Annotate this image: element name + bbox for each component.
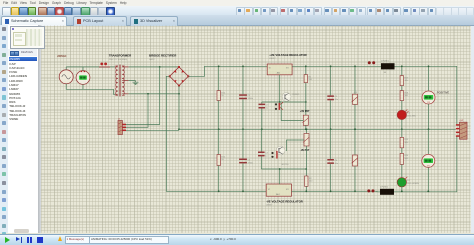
ground — [129, 81, 139, 85]
svg-text:-VE VOLTAGE REGULATOR: -VE VOLTAGE REGULATOR — [266, 199, 303, 203]
node C5 rail tap — [330, 65, 332, 67]
wire R20-D2 — [401, 164, 403, 177]
svg-text:R20: R20 — [405, 155, 410, 157]
resistor R17 — [400, 76, 409, 86]
menu bar — [0, 0, 474, 6]
svg-text:MJ2955: MJ2955 — [282, 164, 290, 166]
regulator U1 LM317 — [267, 64, 292, 75]
voltmeter POSITIVE — [422, 91, 435, 104]
node C1 0V tap — [242, 128, 244, 130]
connector J1 — [118, 119, 126, 135]
node C5 0V tap — [330, 128, 332, 130]
svg-text:-VE POT: -VE POT — [300, 150, 310, 152]
wire C6 bottom — [330, 164, 332, 191]
node D2 -V tap — [401, 190, 403, 192]
svg-text:R19: R19 — [405, 139, 410, 141]
sidebar / object selector — [8, 25, 38, 233]
svg-text:LED-GREEN: LED-GREEN — [407, 183, 419, 185]
svg-text:GBPC: GBPC — [149, 59, 155, 61]
LED D1 red — [397, 109, 417, 119]
wire pot- wiper to Q2 — [287, 140, 305, 151]
wire R2 bottom — [305, 186, 307, 191]
fuse FUSE2 — [367, 186, 394, 195]
wire +reg adj down — [279, 75, 281, 102]
wire C1 bottom — [242, 99, 244, 129]
node D1 0V tap — [401, 128, 403, 130]
svg-text:TRANSFORMER: TRANSFORMER — [109, 54, 132, 58]
wire R17 top — [401, 66, 403, 75]
wire R17-R18 — [401, 86, 403, 91]
wire R14 top — [218, 129, 220, 154]
node RV1 0V tap — [354, 128, 356, 130]
wire VM- bottom — [427, 168, 429, 192]
transistor Q2 body marks — [271, 151, 289, 166]
wire +rail after fuse — [395, 66, 460, 125]
wire 0V rail main — [179, 128, 456, 130]
wire C2 bottom — [242, 163, 244, 191]
toolbar — [0, 6, 474, 16]
node R10 0V tap — [218, 128, 220, 130]
transistor Q2 MJ2955 — [276, 146, 285, 155]
node VM- -V tap — [427, 190, 429, 192]
node VM+ rail tap — [428, 65, 430, 67]
node R1 rail tap — [305, 65, 307, 67]
status bar — [0, 234, 474, 245]
wire RV2 bottom — [354, 166, 356, 191]
svg-text:LED-RED: LED-RED — [407, 115, 416, 117]
svg-text:+VE POT: +VE POT — [300, 111, 310, 113]
wire voltmeter bottom stub — [82, 84, 84, 89]
svg-text:LM317: LM317 — [269, 58, 276, 60]
svg-text:10k: 10k — [405, 80, 408, 82]
svg-text:ADJ: ADJ — [277, 71, 280, 74]
node C2 -V tap — [242, 190, 244, 192]
wire R19 top — [401, 129, 403, 137]
svg-text:3300u: 3300u — [248, 98, 254, 100]
wire R10 bottom — [218, 101, 220, 130]
wire source top stub — [65, 67, 67, 70]
svg-text:POSITIVE: POSITIVE — [437, 91, 450, 95]
node R10 rail tap — [218, 65, 220, 67]
wire bridge+ to +rail — [188, 66, 267, 76]
fuse FUSE1 — [368, 61, 395, 74]
wire R14 bottom — [218, 166, 220, 192]
svg-text:10u: 10u — [335, 99, 338, 101]
node R2 -V tap — [305, 190, 307, 192]
node RV2 0V tap — [354, 128, 356, 130]
node x148 junction — [147, 93, 149, 95]
wire C3 top stub — [261, 102, 263, 104]
fuse F3 — [99, 63, 110, 67]
resistor R10 — [217, 91, 226, 101]
wire RV1 bottom — [354, 104, 356, 129]
wire pot+ bottom — [305, 125, 307, 129]
node RV1 rail tap — [354, 65, 356, 67]
node pot+ 0V tap — [305, 128, 307, 130]
wire C1 top — [242, 66, 244, 94]
wire VM- top — [427, 129, 429, 154]
wire C4 bottom stub — [260, 156, 262, 169]
node adj- junction — [279, 168, 281, 170]
wire source bottom — [66, 84, 115, 95]
capacitor C3 — [259, 104, 270, 110]
node R14 -V tap — [218, 190, 220, 192]
transformer TR1 — [115, 65, 129, 97]
svg-text:LM337: LM337 — [266, 205, 273, 207]
left tool column — [0, 25, 8, 233]
wire VM+ top — [428, 66, 430, 91]
wire vert sec-top to J1 pin1 — [126, 67, 160, 125]
wire C6 top — [330, 129, 332, 159]
node adj-R1 junction — [305, 101, 307, 103]
node adj-R2 junction — [305, 168, 307, 170]
wire C3 bottom — [261, 109, 263, 130]
capacitor C1 — [239, 94, 253, 100]
node VM+ 0V tap — [428, 128, 430, 130]
canvas — [41, 26, 471, 233]
AC source V1 — [59, 70, 73, 84]
node bridge bottom 0V junction — [178, 128, 180, 130]
resistor R1 — [304, 75, 313, 83]
potentiometer +VE POT — [303, 115, 309, 125]
node C3 0V tap — [261, 128, 263, 130]
wire D1 bottom — [401, 120, 403, 130]
resistor R18 — [400, 91, 409, 101]
wire secondary top to bridge — [129, 66, 179, 68]
regulator U2 LM337 — [266, 184, 291, 196]
capacitor C5 — [327, 95, 338, 101]
tab bar — [0, 15, 474, 26]
svg-text:ADJ: ADJ — [276, 193, 279, 196]
wire RV1 top — [354, 66, 356, 94]
wire -reg adj up — [279, 169, 281, 184]
svg-text:+VE VOLTAGE REGULATOR: +VE VOLTAGE REGULATOR — [269, 53, 306, 57]
potentiometer -VE POT — [303, 134, 309, 147]
wire R1 top — [305, 66, 307, 74]
wire VM+ bottom — [428, 104, 430, 129]
wire C2 top — [242, 129, 244, 158]
svg-text:220VAC: 220VAC — [57, 55, 66, 58]
svg-text:10u: 10u — [335, 163, 338, 165]
wire +rail reg out — [292, 65, 381, 67]
LED D2 green — [397, 177, 419, 187]
svg-text:1u: 1u — [265, 155, 267, 157]
svg-text:2N3055: 2N3055 — [292, 94, 300, 96]
wire 0V rail start — [126, 129, 179, 131]
wire R19-R20 — [401, 148, 403, 154]
wire adj node horiz neg — [261, 168, 306, 170]
wire R18-D1 — [401, 101, 403, 111]
svg-text:220V TO 15V(RMS): 220V TO 15V(RMS) — [109, 59, 128, 61]
wire -rail after fuse — [394, 136, 460, 192]
wire secondary bottom wire — [129, 93, 179, 95]
svg-text:1k: 1k — [221, 95, 223, 97]
wire R1 bottom — [305, 83, 307, 116]
wire vert to J1 pin2 — [126, 94, 148, 128]
connector J2 OUTPUT — [456, 120, 467, 139]
overview window — [10, 26, 45, 50]
bridge rectifier BR1 — [169, 66, 190, 87]
wire adj node horiz — [262, 101, 306, 103]
capacitor C4 — [258, 152, 269, 158]
wire bridge- down left rail — [166, 76, 267, 191]
node sec-top junction — [159, 66, 161, 68]
node sec-bottom junction — [178, 93, 180, 95]
wire C5 bottom — [330, 100, 332, 129]
transistor Q1 body marks — [275, 102, 283, 110]
svg-text:BRIDGE RECTIFIER: BRIDGE RECTIFIER — [149, 54, 177, 58]
capacitor C2 — [239, 159, 253, 165]
svg-text:3300u: 3300u — [248, 162, 254, 164]
node R17 rail tap — [401, 65, 403, 67]
resistor R14 — [217, 155, 226, 166]
transistor Q1 2N3055 — [282, 93, 300, 102]
wire pot- to R2 — [306, 146, 308, 176]
wire R10 top — [218, 66, 220, 90]
potentiometer RV2 — [352, 155, 358, 166]
voltmeter AC — [76, 71, 90, 85]
wire bridge bottom to 0V — [178, 86, 180, 130]
wire pot- top — [306, 129, 308, 133]
wire top wire — [66, 66, 115, 68]
wire D2 bottom — [401, 187, 403, 191]
svg-text:1 FUSE 1: 1 FUSE 1 — [381, 61, 389, 63]
wire C5 top — [330, 66, 332, 95]
resistor R19 — [400, 137, 409, 147]
node C1 rail tap — [242, 65, 244, 67]
svg-text:2 FUSE 2: 2 FUSE 2 — [380, 186, 388, 188]
node pot- 0V tap — [306, 128, 308, 130]
wire voltmeter top stub — [82, 67, 84, 71]
svg-text:1u: 1u — [266, 107, 268, 109]
svg-text:10k: 10k — [405, 142, 408, 144]
capacitor C6 — [327, 159, 338, 165]
node C6 -V tap — [330, 190, 332, 192]
wire pot+ wiper to Q1 — [281, 103, 303, 121]
node RV2 -V tap — [354, 190, 356, 192]
wire RV2 top — [354, 129, 356, 155]
resistor R20 — [400, 153, 409, 164]
svg-text:D2: D2 — [407, 180, 410, 182]
wire C4 top — [260, 129, 262, 151]
svg-text:1k: 1k — [221, 159, 223, 161]
wire -rail reg out — [292, 190, 381, 193]
node adj junction — [279, 101, 281, 103]
resistor R2 — [305, 176, 314, 186]
voltmeter NEGATIVE — [422, 154, 435, 167]
potentiometer RV1 — [352, 94, 358, 104]
